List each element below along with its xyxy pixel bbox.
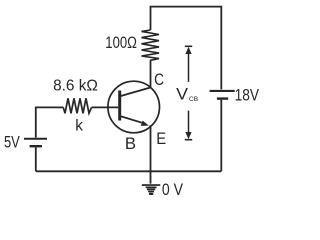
svg-text:5V: 5V bbox=[4, 133, 20, 152]
svg-text:18V: 18V bbox=[235, 87, 259, 105]
svg-text:B: B bbox=[125, 135, 136, 153]
svg-text:V: V bbox=[176, 85, 188, 103]
svg-text:CB: CB bbox=[189, 96, 199, 103]
svg-text:8.6 kΩ: 8.6 kΩ bbox=[53, 78, 98, 95]
svg-text:0 V: 0 V bbox=[162, 181, 183, 199]
svg-text:k: k bbox=[75, 117, 83, 134]
svg-text:E: E bbox=[156, 130, 166, 148]
svg-text:C: C bbox=[154, 71, 164, 89]
svg-text:100Ω: 100Ω bbox=[105, 34, 137, 52]
